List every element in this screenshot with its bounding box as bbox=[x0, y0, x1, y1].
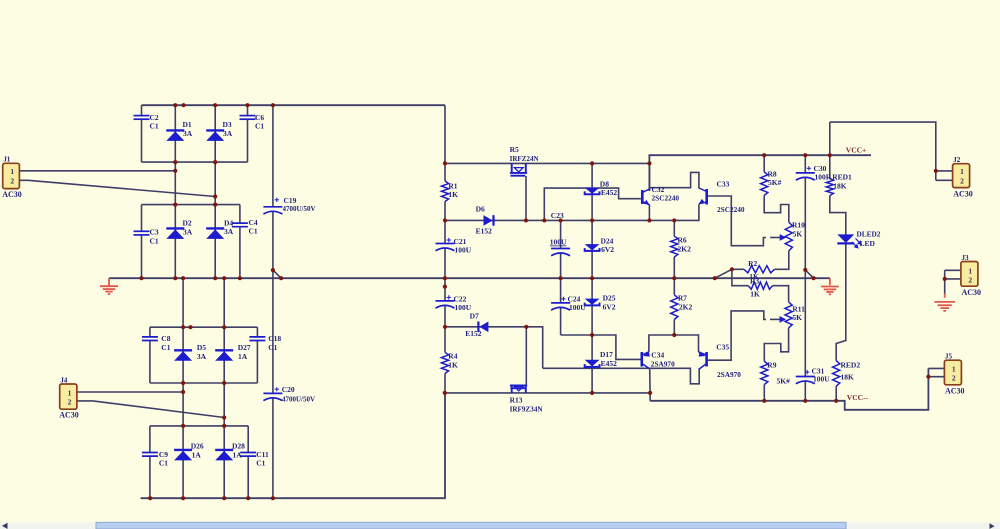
junction 4 bbox=[245, 103, 249, 107]
capacitor C8 bbox=[142, 337, 158, 341]
junction 35 bbox=[590, 218, 594, 222]
svg-text:R6: R6 bbox=[678, 236, 687, 245]
wire R3-R11 link bbox=[773, 286, 789, 302]
svg-text:18K: 18K bbox=[833, 182, 847, 191]
transistor C32 bbox=[642, 189, 649, 205]
wire frame y426 bbox=[150, 425, 248, 427]
junction 25 bbox=[271, 268, 275, 272]
svg-text:D6: D6 bbox=[476, 205, 485, 214]
svg-text:R13: R13 bbox=[510, 396, 523, 405]
capacitor C4 bbox=[232, 223, 248, 227]
svg-text:1K: 1K bbox=[750, 290, 760, 299]
capacitor C3 bbox=[134, 231, 150, 235]
junction 31 bbox=[443, 391, 447, 395]
wire C9 column upper bbox=[149, 426, 151, 453]
wire C31 bottom lead bbox=[804, 381, 806, 401]
wire C34 base route bbox=[561, 335, 641, 359]
svg-text:C1: C1 bbox=[161, 343, 170, 352]
junction 21 bbox=[590, 276, 594, 280]
junction 10 bbox=[173, 203, 177, 207]
svg-text:J3: J3 bbox=[961, 254, 969, 262]
wire C30-C31 column b bbox=[804, 177, 806, 376]
wire C24 column upper bbox=[560, 278, 562, 303]
resistor R6 bbox=[671, 236, 678, 257]
junction 52 bbox=[803, 399, 807, 403]
svg-text:AC30: AC30 bbox=[945, 386, 965, 395]
potentiometer R10 bbox=[785, 222, 792, 251]
diode D26 bbox=[174, 450, 192, 461]
svg-text:6V2: 6V2 bbox=[601, 245, 614, 254]
resistor R9 bbox=[761, 361, 768, 384]
junction 29 bbox=[443, 218, 447, 222]
zener D25 bbox=[585, 299, 600, 306]
junction 24 bbox=[812, 276, 816, 280]
junction 14 bbox=[181, 276, 185, 280]
junction 41 bbox=[803, 153, 807, 157]
wire J5 pin2 lead bbox=[928, 376, 944, 378]
svg-text:2SA970: 2SA970 bbox=[717, 370, 741, 379]
svg-text:AC30: AC30 bbox=[59, 411, 79, 420]
resistor RED1 bbox=[826, 178, 833, 196]
svg-text:J1: J1 bbox=[3, 156, 11, 164]
junction 62 bbox=[181, 424, 185, 428]
junction 7 bbox=[213, 160, 217, 164]
wire C20 column lower bbox=[272, 398, 274, 499]
junction 9 bbox=[213, 194, 217, 198]
svg-text:C1: C1 bbox=[249, 227, 258, 236]
ground mid-right bbox=[821, 287, 839, 295]
capacitor C6 bbox=[240, 116, 256, 120]
svg-text:5K#: 5K# bbox=[768, 178, 782, 187]
diode D27 bbox=[215, 350, 233, 361]
wire J4 pin2 net bbox=[77, 401, 224, 418]
svg-text:C1: C1 bbox=[255, 122, 264, 131]
wire gate line y163 bbox=[445, 162, 649, 164]
wire C4 column lower bbox=[239, 227, 241, 278]
wire J2 pin2 lead bbox=[936, 179, 953, 181]
wire C2 column lower bbox=[141, 120, 143, 163]
svg-text:R2: R2 bbox=[748, 259, 757, 268]
svg-text:C18: C18 bbox=[268, 334, 281, 343]
resistor R8 bbox=[761, 172, 768, 196]
svg-text:D27: D27 bbox=[238, 343, 251, 352]
wire J2 feed bbox=[830, 122, 936, 180]
junction 67 bbox=[246, 496, 250, 500]
svg-text:C23: C23 bbox=[551, 211, 564, 220]
diode D3 bbox=[206, 130, 224, 141]
svg-text:2: 2 bbox=[952, 373, 956, 382]
wire ground stub left bbox=[108, 278, 110, 285]
junction 32 bbox=[524, 218, 528, 222]
wire frame y162 bbox=[142, 161, 248, 163]
MOSFET R13 bbox=[510, 385, 527, 393]
wire C34 collector drop bbox=[649, 368, 651, 393]
connector J2 bbox=[953, 156, 973, 199]
scrollbar bbox=[0, 522, 1000, 529]
wire C33 collector route bbox=[649, 172, 699, 188]
svg-text:J5: J5 bbox=[945, 353, 953, 361]
junction 66 bbox=[222, 496, 226, 500]
svg-text:5K: 5K bbox=[793, 230, 803, 239]
svg-text:E152: E152 bbox=[476, 227, 493, 236]
wire R8-R10 staircase bbox=[764, 195, 789, 222]
wire J1 pin1 net bbox=[19, 170, 175, 172]
transistor C34 bbox=[642, 351, 650, 368]
svg-text:2SC2240: 2SC2240 bbox=[717, 205, 745, 214]
resistor R3 bbox=[748, 282, 772, 289]
junction 49 bbox=[590, 391, 594, 395]
svg-text:2K2: 2K2 bbox=[679, 303, 693, 312]
wire VCC+ rail bbox=[649, 155, 871, 191]
wire C33 base route bbox=[707, 196, 766, 246]
svg-text:RED2: RED2 bbox=[841, 361, 861, 370]
svg-text:1: 1 bbox=[968, 267, 972, 276]
resistor R1 bbox=[441, 181, 448, 202]
wire LED-RED2 link bbox=[836, 244, 846, 361]
resistor RED2 bbox=[833, 361, 840, 387]
wire C18 column lower bbox=[256, 341, 258, 383]
wire RED2 bottom lead bbox=[835, 386, 837, 401]
wire zener chain upper bbox=[591, 163, 593, 278]
wire R11-R9 staircase bbox=[764, 328, 788, 361]
wire R6 bottom lead bbox=[673, 257, 675, 278]
wire C6 column upper bbox=[247, 105, 249, 115]
wire collector line y368 bbox=[543, 368, 700, 384]
wire zener chain lower bbox=[591, 278, 593, 393]
wire J1 pin2 net bbox=[19, 180, 215, 196]
wire R7 top lead bbox=[673, 278, 675, 295]
svg-text:DLED2: DLED2 bbox=[857, 230, 881, 239]
ground mid-left bbox=[100, 286, 118, 294]
svg-text:D25: D25 bbox=[603, 294, 616, 303]
junction 36 bbox=[647, 218, 651, 222]
junction 12 bbox=[139, 276, 143, 280]
wire C19-C20 column mid bbox=[272, 211, 274, 393]
capacitor C2 bbox=[134, 116, 150, 120]
wire emitter line y220 bbox=[445, 204, 699, 220]
capacitor C24 bbox=[551, 303, 570, 310]
diode D6 bbox=[484, 215, 494, 226]
capacitor C11 bbox=[240, 453, 256, 457]
svg-text:C1: C1 bbox=[150, 122, 159, 131]
wire D1-D2 column bbox=[174, 105, 176, 278]
junction 6 bbox=[173, 160, 177, 164]
wire middle bus bbox=[109, 277, 830, 279]
svg-text:C1: C1 bbox=[256, 459, 265, 468]
svg-text:5K: 5K bbox=[792, 313, 802, 322]
capacitor C23 bbox=[551, 249, 570, 256]
wire emitter line y335 bbox=[649, 335, 699, 352]
wire D5-D26 column bbox=[182, 278, 184, 498]
wire C4 column upper bbox=[239, 205, 241, 224]
junction 13 bbox=[173, 276, 177, 280]
svg-text:100U: 100U bbox=[550, 238, 567, 247]
wire C24 column lower bbox=[560, 307, 562, 335]
wire R8 top lead bbox=[763, 155, 765, 172]
svg-text:C1: C1 bbox=[268, 343, 277, 352]
wire R5 drain bbox=[525, 176, 527, 220]
wire C11 column upper bbox=[247, 426, 249, 453]
junction 27 bbox=[443, 285, 447, 289]
capacitor C30 bbox=[796, 173, 815, 180]
svg-text:C20: C20 bbox=[282, 385, 295, 394]
svg-text:1K: 1K bbox=[448, 190, 458, 199]
capacitor C21 bbox=[436, 244, 455, 251]
svg-text:1A: 1A bbox=[192, 451, 202, 460]
svg-text:2SA970: 2SA970 bbox=[651, 360, 675, 369]
junction 68 bbox=[271, 496, 275, 500]
junction 30 bbox=[443, 325, 447, 329]
wire C30-C31 column a bbox=[804, 155, 806, 173]
junction 53 bbox=[834, 399, 838, 403]
svg-text:C35: C35 bbox=[716, 343, 729, 352]
svg-text:2: 2 bbox=[10, 177, 14, 186]
wire C23 column upper bbox=[560, 220, 562, 248]
svg-text:D5: D5 bbox=[197, 343, 206, 352]
junction 56 bbox=[188, 325, 192, 329]
svg-text:VCC--: VCC-- bbox=[847, 393, 869, 402]
svg-text:100U: 100U bbox=[569, 303, 586, 312]
junction 8 bbox=[173, 169, 177, 173]
wire top bus bbox=[142, 104, 446, 106]
resistor R4 bbox=[441, 352, 448, 373]
svg-text:D3: D3 bbox=[223, 120, 232, 129]
junction 64 bbox=[148, 496, 152, 500]
wire C11 column lower bbox=[247, 457, 249, 499]
junction 44 bbox=[943, 277, 947, 281]
svg-text:R9: R9 bbox=[767, 361, 776, 370]
wire C9 column lower bbox=[149, 457, 151, 499]
wire R11 wiper route bbox=[707, 311, 766, 360]
wire C3 column lower bbox=[141, 235, 143, 278]
svg-text:D1: D1 bbox=[183, 120, 192, 129]
svg-text:VCC+: VCC+ bbox=[846, 146, 867, 155]
wire frame y204 bbox=[142, 204, 240, 206]
junction 37 bbox=[672, 218, 676, 222]
junction 15 bbox=[213, 276, 217, 280]
svg-text:R3: R3 bbox=[750, 277, 759, 286]
wire spine C22-R4 bbox=[444, 305, 446, 352]
junction 46 bbox=[524, 325, 528, 329]
wire J3 pin2 lead bbox=[945, 278, 961, 280]
svg-text:E452: E452 bbox=[601, 188, 618, 197]
potentiometer R11 wiper bbox=[770, 316, 786, 323]
svg-text:2: 2 bbox=[960, 177, 964, 186]
capacitor C9 bbox=[142, 453, 158, 457]
svg-text:AC30: AC30 bbox=[962, 288, 982, 297]
svg-text:3A: 3A bbox=[183, 129, 193, 138]
svg-text:18K: 18K bbox=[841, 373, 855, 382]
wire source line y393 bbox=[445, 393, 650, 401]
svg-text:3A: 3A bbox=[223, 129, 233, 138]
svg-text:C1: C1 bbox=[150, 237, 159, 246]
transistor C35 bbox=[699, 351, 707, 369]
junction 34 bbox=[559, 218, 563, 222]
svg-text:1: 1 bbox=[10, 167, 14, 176]
junction 50 bbox=[648, 391, 652, 395]
connector J5 bbox=[944, 353, 964, 396]
wire C32 collector riser bbox=[648, 163, 650, 191]
wire D3-D4 column bbox=[214, 105, 216, 278]
wire R2 left lead bbox=[732, 268, 744, 270]
junction 39 bbox=[647, 161, 651, 165]
connector J3 bbox=[961, 254, 981, 297]
svg-text:R10: R10 bbox=[792, 221, 805, 230]
svg-text:1: 1 bbox=[960, 167, 964, 176]
svg-text:1A: 1A bbox=[233, 451, 243, 460]
svg-text:D7: D7 bbox=[470, 312, 479, 321]
connector J4 bbox=[59, 376, 79, 419]
junction 3 bbox=[213, 103, 217, 107]
wire C3 column upper bbox=[141, 205, 143, 232]
svg-text:3A: 3A bbox=[224, 227, 234, 236]
potentiometer R10 wiper bbox=[770, 234, 786, 241]
wire C2 column upper bbox=[141, 105, 143, 115]
svg-text:J4: J4 bbox=[60, 376, 68, 384]
wire R2-R10 link bbox=[775, 251, 789, 269]
junction 47 bbox=[590, 333, 594, 337]
svg-text:AC30: AC30 bbox=[953, 190, 973, 199]
diode D4 bbox=[206, 228, 224, 239]
wire J4 pin1 net bbox=[77, 391, 183, 393]
wire RED1 top lead bbox=[829, 122, 831, 178]
svg-text:2SC2240: 2SC2240 bbox=[652, 194, 680, 203]
svg-text:IRFZ24N: IRFZ24N bbox=[510, 154, 540, 163]
zener D17 bbox=[585, 360, 600, 367]
wire R9 bottom lead bbox=[763, 385, 765, 401]
svg-text:J2: J2 bbox=[953, 156, 961, 164]
junction 45 bbox=[926, 375, 930, 379]
junction 48 bbox=[672, 333, 676, 337]
junction 28 bbox=[443, 161, 447, 165]
diode D5 bbox=[174, 350, 192, 361]
svg-text:5K#: 5K# bbox=[777, 377, 791, 386]
wire J5 pin1 lead bbox=[928, 367, 944, 369]
junction 60 bbox=[181, 390, 185, 394]
wire C30 bus diagonal bbox=[805, 270, 813, 278]
junction 57 bbox=[222, 325, 226, 329]
junction 63 bbox=[222, 424, 226, 428]
svg-text:3A: 3A bbox=[183, 228, 193, 237]
resistor R2 bbox=[744, 266, 775, 273]
junction 42 bbox=[828, 153, 832, 157]
junction 2 bbox=[181, 103, 185, 107]
LED DLED2 bbox=[837, 234, 861, 247]
junction 18 bbox=[279, 276, 283, 280]
wire C8 column upper bbox=[149, 327, 151, 337]
svg-text:D26: D26 bbox=[191, 442, 204, 451]
svg-text:R7: R7 bbox=[678, 294, 687, 303]
junction 11 bbox=[213, 203, 217, 207]
svg-text:R4: R4 bbox=[448, 352, 457, 361]
junction 58 bbox=[181, 381, 185, 385]
junction 51 bbox=[762, 399, 766, 403]
svg-text:C33: C33 bbox=[717, 180, 730, 189]
svg-text:100U: 100U bbox=[455, 245, 472, 254]
svg-text:C8: C8 bbox=[161, 334, 170, 343]
junction 26 bbox=[803, 268, 807, 272]
wire R7 bottom lead bbox=[673, 320, 675, 336]
junction 16 bbox=[222, 276, 226, 280]
wire J3 ground stub bbox=[944, 294, 946, 298]
svg-text:C3: C3 bbox=[150, 228, 159, 237]
wire spine top bbox=[444, 105, 446, 181]
wire C8 column lower bbox=[149, 341, 151, 383]
svg-text:4700U/50V: 4700U/50V bbox=[283, 204, 317, 213]
svg-text:LED: LED bbox=[860, 239, 876, 248]
wire J3 pin1 lead bbox=[945, 269, 961, 271]
junction 22 bbox=[672, 276, 676, 280]
capacitor C20 bbox=[263, 393, 282, 400]
junction 38 bbox=[590, 161, 594, 165]
ground J3 bbox=[934, 302, 955, 311]
svg-text:E452: E452 bbox=[601, 359, 618, 368]
wire spine C21-C22 bbox=[444, 248, 446, 301]
wire R6 top lead bbox=[673, 220, 675, 236]
diode D7 bbox=[478, 322, 488, 333]
svg-text:D17: D17 bbox=[600, 350, 613, 359]
svg-text:AC30: AC30 bbox=[2, 190, 22, 199]
svg-text:2: 2 bbox=[68, 397, 72, 406]
wire C23 column lower bbox=[560, 253, 562, 278]
wire C19 column upper bbox=[272, 105, 274, 207]
wire R2 diagonal bbox=[715, 269, 732, 278]
junction 65 bbox=[181, 496, 185, 500]
wire C6 column lower bbox=[247, 120, 249, 163]
capacitor C22 bbox=[436, 301, 455, 308]
svg-text:100U: 100U bbox=[813, 375, 830, 384]
svg-text:2K2: 2K2 bbox=[678, 245, 692, 254]
svg-text:4700U/50V: 4700U/50V bbox=[282, 395, 316, 404]
connector J1 bbox=[2, 156, 22, 199]
svg-text:1A: 1A bbox=[238, 352, 248, 361]
wire ground stub mid-right bbox=[829, 278, 831, 285]
wire C32 emitter bbox=[648, 205, 650, 221]
capacitor C31 bbox=[796, 377, 815, 384]
wire D7 line bbox=[445, 327, 543, 369]
junction 59 bbox=[222, 381, 226, 385]
svg-text:RED1: RED1 bbox=[832, 173, 852, 182]
wire riser 544 bbox=[544, 188, 641, 220]
wire RED1-LED link bbox=[830, 196, 846, 235]
wire R13 drain bbox=[525, 327, 527, 385]
junction 20 bbox=[559, 276, 563, 280]
diode D2 bbox=[166, 228, 184, 239]
capacitor C19 bbox=[263, 207, 282, 214]
wire C18 column upper bbox=[256, 327, 258, 337]
svg-text:C34: C34 bbox=[651, 351, 664, 360]
wire VCC- rail bbox=[650, 368, 928, 409]
svg-text:3A: 3A bbox=[197, 352, 207, 361]
wire frame y383 bbox=[150, 382, 258, 384]
svg-text:IRF9Z34N: IRF9Z34N bbox=[510, 405, 544, 414]
junction 23 bbox=[713, 276, 717, 280]
transistor C33 bbox=[699, 188, 707, 205]
wire spine R4-bottom bbox=[444, 374, 446, 393]
svg-text:R5: R5 bbox=[510, 145, 519, 154]
junction 43 bbox=[934, 169, 938, 173]
wire D27-D28 column bbox=[223, 278, 225, 498]
potentiometer R11 bbox=[785, 302, 792, 328]
svg-text:D28: D28 bbox=[232, 442, 245, 451]
svg-text:2: 2 bbox=[968, 275, 972, 284]
zener D8 bbox=[585, 188, 600, 195]
junction 40 bbox=[762, 153, 766, 157]
capacitor C18 bbox=[249, 337, 265, 341]
svg-text:D2: D2 bbox=[183, 219, 192, 228]
svg-text:6V2: 6V2 bbox=[603, 303, 616, 312]
svg-text:1: 1 bbox=[68, 388, 72, 397]
